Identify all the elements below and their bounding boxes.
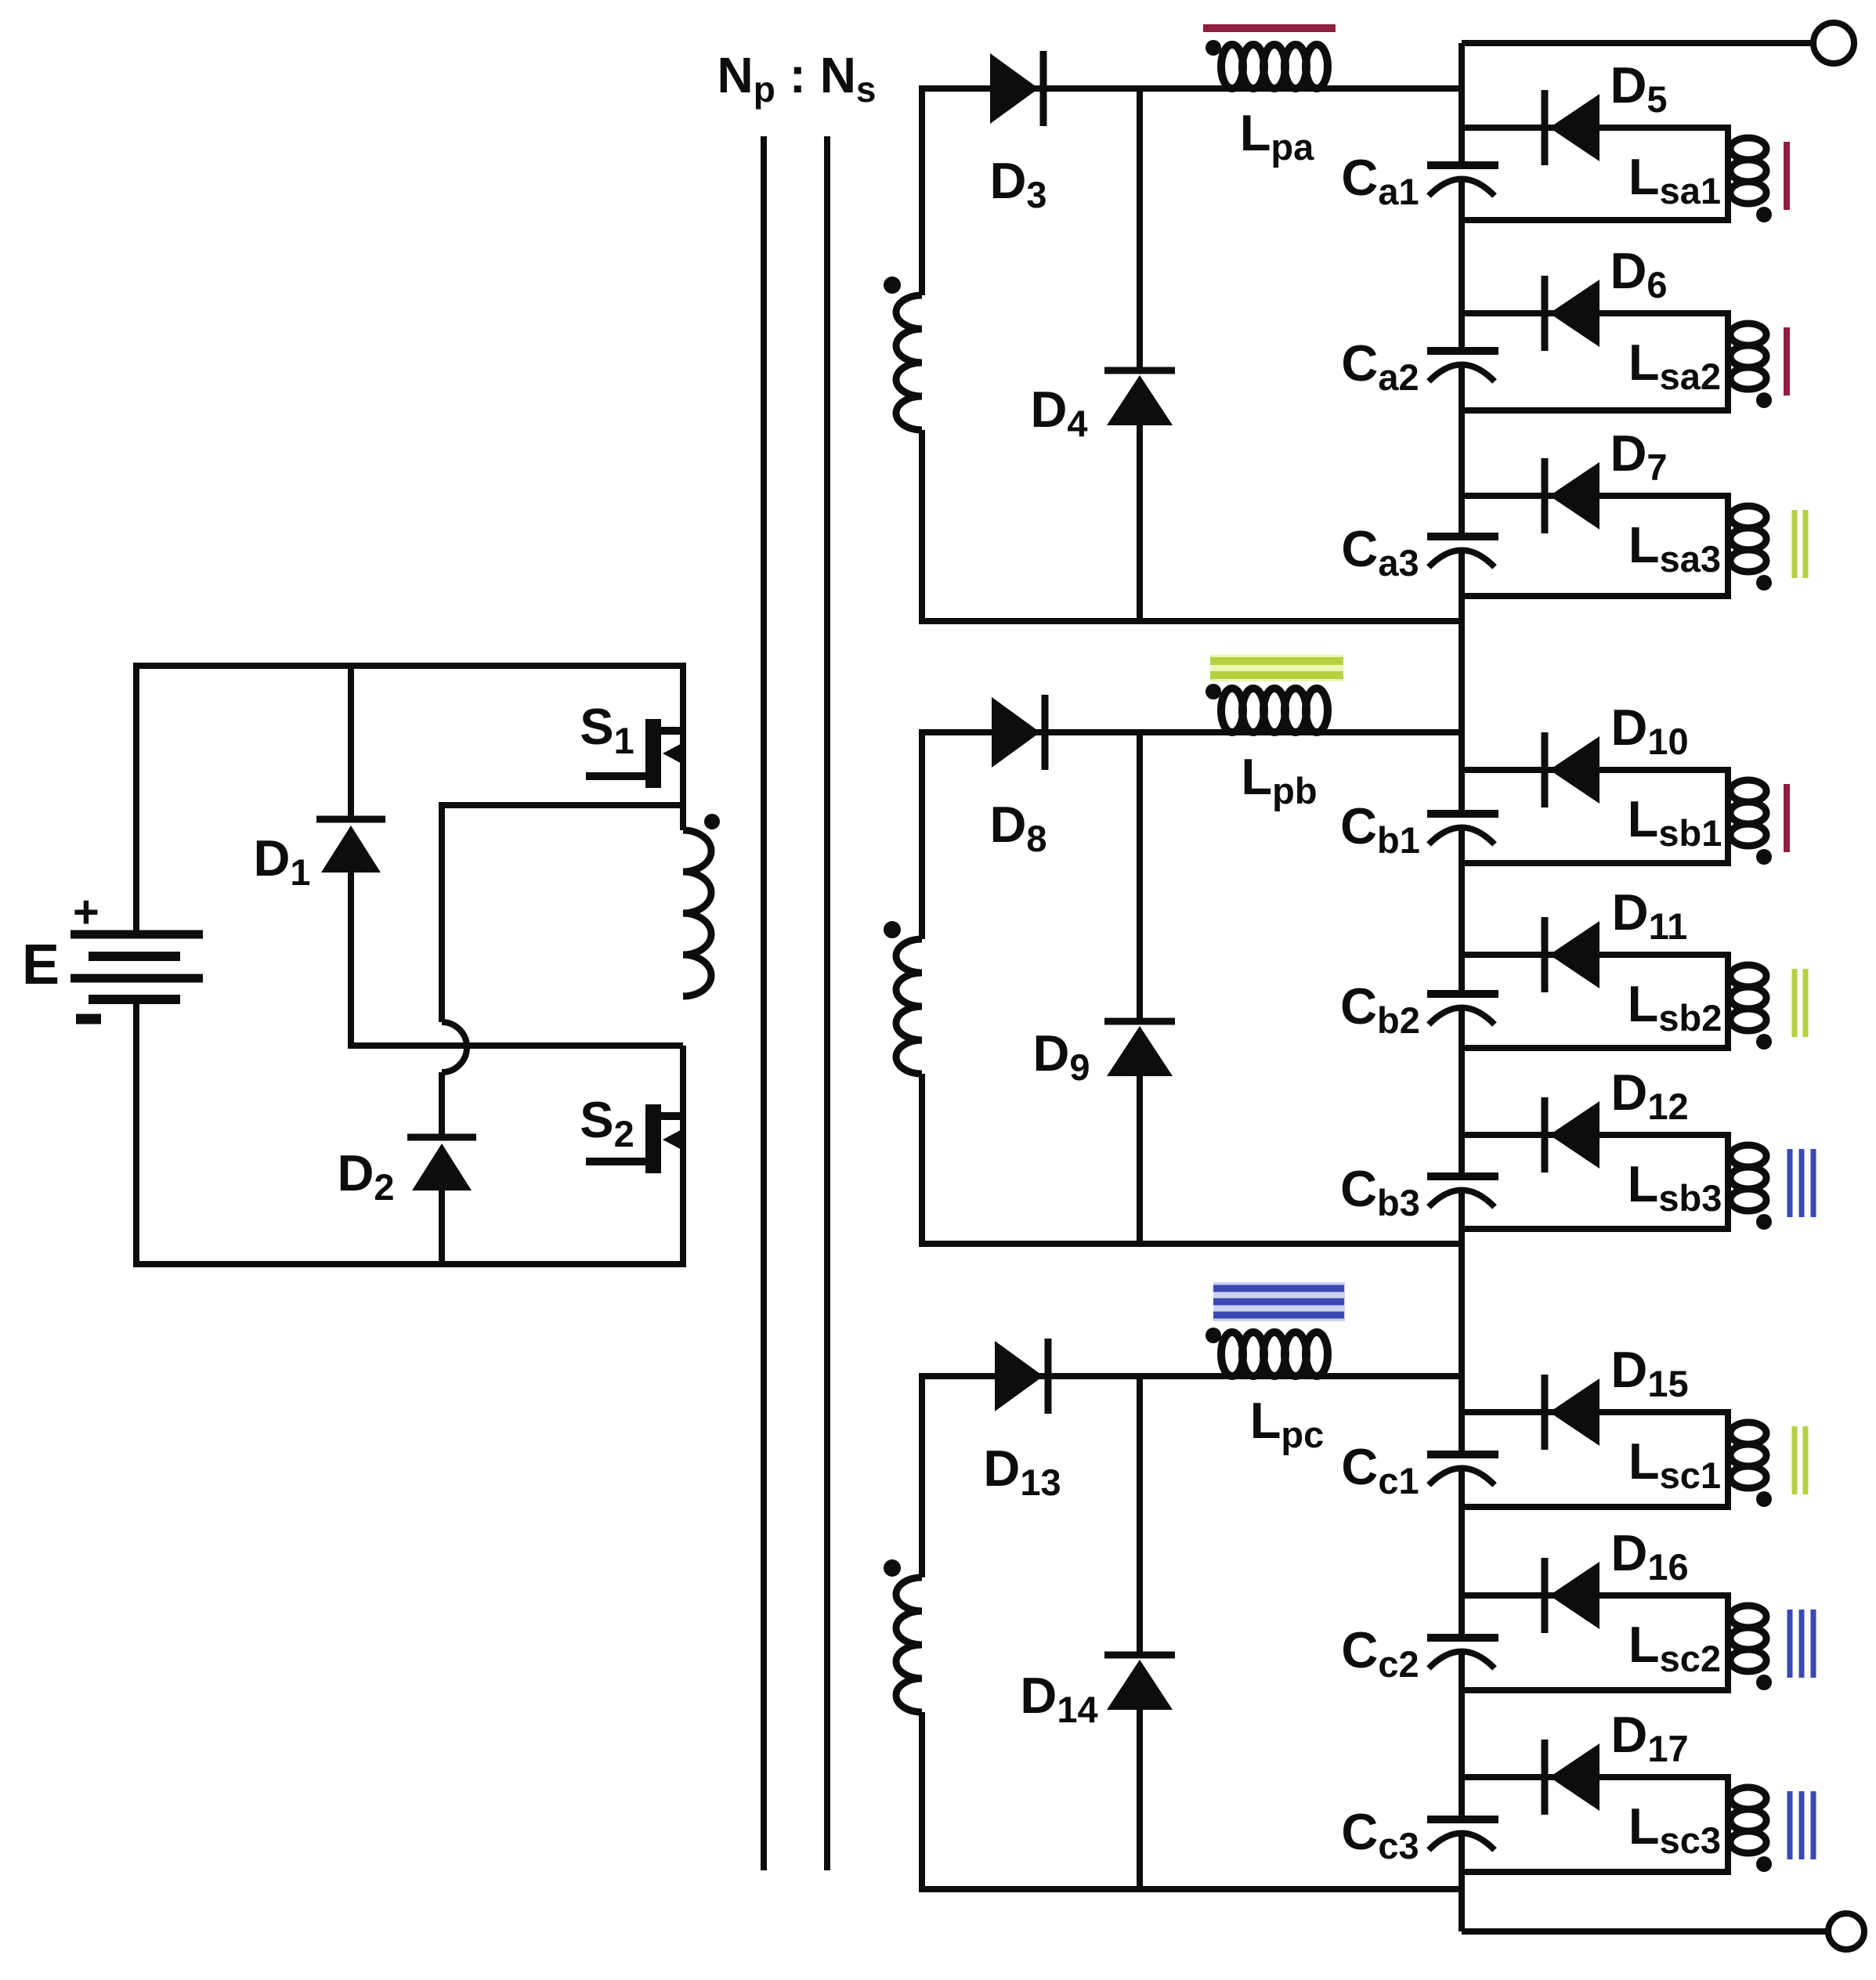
svg-text:Lsc2: Lsc2 <box>1628 1616 1721 1679</box>
inductor Lsb1 polarity dot <box>1756 849 1772 865</box>
wire battery negative lead <box>133 999 139 1267</box>
diode D1 <box>316 819 385 873</box>
inductor Lsc1 <box>1730 1422 1766 1488</box>
capacitor Ca2 <box>1427 351 1498 381</box>
svg-text:Ca2: Ca2 <box>1341 334 1419 398</box>
wire cell box bottom (Lsb3) <box>1462 1226 1728 1232</box>
phase marker ticks (Lsb3) <box>1790 1149 1813 1217</box>
diode D9 <box>1104 1021 1175 1076</box>
label D5 <box>1610 56 1667 120</box>
wire cell box bottom (Lsc1) <box>1462 1504 1728 1510</box>
label D15 <box>1610 1341 1688 1404</box>
svg-text:D14: D14 <box>1020 1667 1097 1730</box>
transformer core line left <box>761 136 767 1870</box>
svg-text:Cb3: Cb3 <box>1340 1160 1420 1223</box>
primary winding polarity dot <box>704 814 720 829</box>
wire diode D16 branch <box>1462 1592 1728 1599</box>
phase marker bars (Lpa) <box>1203 24 1336 32</box>
label Lpa <box>1240 104 1314 168</box>
svg-text:Lsb3: Lsb3 <box>1628 1155 1722 1219</box>
label Ca2 <box>1341 334 1419 398</box>
phase marker ticks (Lsa1) <box>1784 142 1790 210</box>
label D12 <box>1610 1064 1688 1127</box>
label D3 <box>989 152 1046 215</box>
svg-text:D16: D16 <box>1610 1524 1688 1588</box>
inductor Lsb3 polarity dot <box>1756 1214 1772 1230</box>
wire D9 branch lower <box>1137 1071 1143 1247</box>
label D4 <box>1030 381 1087 444</box>
label Cc1 <box>1341 1438 1419 1501</box>
label Lsa1 <box>1628 148 1721 211</box>
phase marker ticks (Lsa2) <box>1784 327 1790 396</box>
capacitor Cb1 <box>1427 814 1498 844</box>
wire cell box right edge (Lsc3) <box>1725 1774 1731 1875</box>
wire diode D17 branch <box>1462 1774 1728 1780</box>
diode D17 <box>1545 1740 1599 1815</box>
wire crossing hop over center wire <box>442 1022 467 1072</box>
label S1 <box>580 698 634 761</box>
wire module Lpb bottom rail <box>922 1241 1462 1247</box>
svg-text:Lpc: Lpc <box>1250 1392 1325 1455</box>
wire cell box bottom (Lsc3) <box>1462 1869 1728 1875</box>
inductor Lsa3 polarity dot <box>1756 575 1772 591</box>
label D10 <box>1610 699 1688 762</box>
svg-text:Ca1: Ca1 <box>1341 149 1419 212</box>
label D16 <box>1610 1524 1688 1588</box>
label D8 <box>989 796 1046 859</box>
svg-text:D9: D9 <box>1032 1024 1090 1088</box>
svg-text:Lpa: Lpa <box>1240 104 1314 168</box>
wire cell box right edge (Lsc1) <box>1725 1409 1731 1510</box>
wire cell box right edge (Lsb2) <box>1725 952 1731 1051</box>
diode D10 <box>1545 732 1599 808</box>
wire cell box bottom (Lsc2) <box>1462 1687 1728 1693</box>
wire D2 branch upper <box>439 802 445 1022</box>
wire center horizontal (D1 to S2/winding node) <box>348 1042 683 1049</box>
wire output top <box>1462 40 1815 46</box>
capacitor Ca3 <box>1427 537 1498 567</box>
diode D14 <box>1104 1655 1175 1710</box>
label D11 <box>1612 883 1688 947</box>
label D1 <box>253 829 310 893</box>
inductor Lsa1 polarity dot <box>1756 207 1772 222</box>
wire module Lpb left vertical lower <box>919 1074 925 1247</box>
label Cb3 <box>1340 1160 1420 1223</box>
svg-text:D13: D13 <box>983 1440 1061 1503</box>
capacitor Cc1 <box>1427 1454 1498 1485</box>
diode D7 <box>1545 458 1599 533</box>
wire D2 branch lower <box>439 1187 445 1267</box>
wire cell box bottom (Lsa2) <box>1462 407 1728 414</box>
label Lpc <box>1250 1392 1325 1455</box>
label battery plus <box>73 887 99 938</box>
diode D5 <box>1545 90 1599 165</box>
svg-text:Lpb: Lpb <box>1241 748 1317 811</box>
label Ca3 <box>1341 520 1419 584</box>
wire diode D15 branch <box>1462 1409 1728 1415</box>
label D6 <box>1610 242 1667 305</box>
svg-text:Lsa1: Lsa1 <box>1628 148 1721 211</box>
wire output bus (right vertical) <box>1459 43 1465 1931</box>
switch S1 (MOSFET) <box>586 663 686 830</box>
wire D9 branch upper <box>1137 729 1143 1024</box>
wire cell box right edge (Lsa1) <box>1725 125 1731 223</box>
inductor Lsc2 <box>1730 1606 1766 1671</box>
wire primary top rail <box>133 663 683 669</box>
output terminal bottom <box>1828 1913 1864 1949</box>
wire cell box bottom (Lsa1) <box>1462 217 1728 223</box>
wire D2 branch middle <box>439 1072 445 1140</box>
inductor Lsc3 <box>1730 1787 1766 1853</box>
inductor Lsc2 polarity dot <box>1756 1675 1772 1690</box>
inductor Lsb3 <box>1730 1145 1766 1211</box>
label D17 <box>1610 1706 1688 1769</box>
wire cell box bottom (Lsa3) <box>1462 593 1728 599</box>
wire module Lpa left vertical upper <box>919 85 925 295</box>
label S2 <box>580 1091 634 1154</box>
label Lsc2 <box>1628 1616 1721 1679</box>
inductor Lsc3 polarity dot <box>1756 1856 1772 1872</box>
svg-text:D3: D3 <box>989 152 1046 215</box>
wire output bottom <box>1462 1928 1829 1935</box>
svg-text:Cb1: Cb1 <box>1340 797 1420 861</box>
diode D3 <box>990 51 1043 126</box>
svg-text:D11: D11 <box>1612 883 1688 947</box>
diode D2 <box>407 1137 476 1191</box>
svg-text:D12: D12 <box>1610 1064 1688 1127</box>
inductor Lsb2 polarity dot <box>1756 1034 1772 1050</box>
diode D11 <box>1545 917 1599 992</box>
wire module Lpc left vertical upper <box>919 1373 925 1577</box>
label E <box>22 934 60 996</box>
phase marker bars (Lpc) <box>1213 1282 1345 1321</box>
inductor Lsa3 <box>1730 506 1766 572</box>
label Cb1 <box>1340 797 1420 861</box>
phase marker ticks (Lsa3) <box>1795 510 1806 578</box>
svg-text:Ca3: Ca3 <box>1341 520 1419 584</box>
label Lsb2 <box>1628 975 1722 1039</box>
wire cell box right edge (Lsb3) <box>1725 1132 1731 1232</box>
inductor Lsa1 <box>1730 138 1766 204</box>
wire module Lpc top rail <box>922 1373 1462 1379</box>
inductor Lsc1 polarity dot <box>1756 1491 1772 1507</box>
svg-text:Lsb2: Lsb2 <box>1628 975 1722 1039</box>
capacitor Cb3 <box>1427 1176 1498 1207</box>
inductor Lpa <box>1221 45 1328 89</box>
label Cc3 <box>1341 1803 1419 1866</box>
svg-text:E: E <box>22 934 60 996</box>
secondary winding (Lpa module) <box>896 295 922 430</box>
svg-text:+: + <box>73 887 99 938</box>
svg-text:D5: D5 <box>1610 56 1667 120</box>
label Cb2 <box>1340 977 1420 1041</box>
svg-text:S2: S2 <box>580 1091 634 1154</box>
svg-text:D4: D4 <box>1030 381 1087 444</box>
wire module Lpa left vertical lower <box>919 430 925 624</box>
diode D12 <box>1545 1097 1599 1172</box>
label Lsa3 <box>1628 516 1721 580</box>
wire D14 branch lower <box>1137 1705 1143 1892</box>
wire D1 branch upper <box>348 663 354 822</box>
wire primary bottom rail <box>133 1261 683 1267</box>
svg-text:S1: S1 <box>580 698 634 761</box>
svg-text:D6: D6 <box>1610 242 1667 305</box>
label D9 <box>1032 1024 1090 1088</box>
phase marker ticks (Lsc2) <box>1790 1610 1813 1678</box>
label Lsa2 <box>1628 334 1721 397</box>
capacitor Cb2 <box>1427 994 1498 1024</box>
wire module Lpb left vertical upper <box>919 729 925 939</box>
diode D15 <box>1545 1375 1599 1450</box>
svg-text:D17: D17 <box>1610 1706 1688 1769</box>
svg-text:Lsa3: Lsa3 <box>1628 516 1721 580</box>
inductor Lpc polarity dot <box>1205 1328 1221 1343</box>
svg-text:Np : Ns: Np : Ns <box>717 47 876 110</box>
wire diode D10 branch <box>1462 767 1728 773</box>
secondary winding (Lpc module) <box>896 1577 922 1712</box>
label battery minus <box>76 1014 101 1024</box>
wire module Lpc bottom rail <box>922 1886 1462 1892</box>
secondary winding (Lpb module) <box>896 939 922 1074</box>
wire cell box right edge (Lsa3) <box>1725 493 1731 599</box>
phase marker ticks (Lsb1) <box>1784 784 1790 852</box>
label Lsb1 <box>1628 790 1722 854</box>
diode D8 <box>992 695 1045 770</box>
capacitor Cc2 <box>1427 1638 1498 1668</box>
wire D4 branch lower <box>1137 421 1143 624</box>
secondary winding polarity dot (Lpc module) <box>884 1559 901 1577</box>
svg-text:Cb2: Cb2 <box>1340 977 1420 1041</box>
output terminal top <box>1813 23 1854 63</box>
inductor Lpc <box>1221 1332 1328 1376</box>
diode D4 <box>1104 370 1175 425</box>
wire cell box right edge (Lsb1) <box>1725 767 1731 866</box>
svg-text:D1: D1 <box>253 829 310 893</box>
svg-text:Lsa2: Lsa2 <box>1628 334 1721 397</box>
label D7 <box>1610 425 1667 488</box>
wire diode D6 branch <box>1462 310 1728 316</box>
label Ca1 <box>1341 149 1419 212</box>
phase marker bars (Lpb) <box>1210 655 1343 681</box>
wire cell box bottom (Lsb2) <box>1462 1045 1728 1051</box>
svg-text:Cc2: Cc2 <box>1341 1621 1419 1685</box>
wire module Lpa bottom rail <box>922 618 1462 624</box>
wire battery positive lead <box>133 663 139 937</box>
transformer core line right <box>824 136 830 1870</box>
label D13 <box>983 1440 1061 1503</box>
inductor Lpa polarity dot <box>1205 40 1221 56</box>
svg-text:Lsb1: Lsb1 <box>1628 790 1722 854</box>
label D2 <box>337 1144 394 1208</box>
label Lsb3 <box>1628 1155 1722 1219</box>
wire cell box right edge (Lsc2) <box>1725 1592 1731 1693</box>
inductor Lsb1 <box>1730 780 1766 846</box>
capacitor Cc3 <box>1427 1819 1498 1850</box>
diode D16 <box>1545 1558 1599 1633</box>
diode D6 <box>1545 276 1599 351</box>
label Lsc1 <box>1628 1433 1721 1496</box>
inductor Lsa2 <box>1730 323 1766 389</box>
wire D14 branch upper <box>1137 1373 1143 1658</box>
label Cc2 <box>1341 1621 1419 1685</box>
wire D1 branch lower <box>348 869 354 1049</box>
inductor Lpb <box>1221 688 1328 732</box>
wire cell box right edge (Lsa2) <box>1725 310 1731 414</box>
svg-text:Lsc1: Lsc1 <box>1628 1433 1721 1496</box>
secondary winding polarity dot (Lpb module) <box>884 921 901 938</box>
diode D13 <box>995 1339 1048 1414</box>
secondary winding polarity dot (Lpa module) <box>884 276 901 294</box>
wire S1-source to D2 branch <box>439 802 683 808</box>
svg-text:D8: D8 <box>989 796 1046 859</box>
wire module Lpa top rail <box>922 85 1462 92</box>
inductor Lsa2 polarity dot <box>1756 392 1772 408</box>
svg-text:D7: D7 <box>1610 425 1667 488</box>
inductor Lpb polarity dot <box>1205 684 1221 699</box>
phase marker ticks (Lsb2) <box>1795 969 1806 1037</box>
capacitor Ca1 <box>1427 165 1498 196</box>
wire module Lpb top rail <box>922 729 1462 735</box>
wire cell box bottom (Lsb1) <box>1462 860 1728 866</box>
label D14 <box>1020 1667 1097 1730</box>
label Lsc3 <box>1628 1798 1721 1861</box>
svg-text:Lsc3: Lsc3 <box>1628 1798 1721 1861</box>
svg-text:D15: D15 <box>1610 1341 1688 1404</box>
label Np : Ns <box>717 47 876 110</box>
wire diode D11 branch <box>1462 952 1728 958</box>
wire diode D12 branch <box>1462 1132 1728 1138</box>
wire diode D5 branch <box>1462 125 1728 131</box>
wire module Lpc left vertical lower <box>919 1712 925 1892</box>
inductor Lsb2 <box>1730 965 1766 1031</box>
wire D4 branch upper <box>1137 85 1143 374</box>
svg-text:Cc3: Cc3 <box>1341 1803 1419 1866</box>
primary winding Np <box>683 830 711 996</box>
phase marker ticks (Lsc3) <box>1790 1791 1813 1859</box>
svg-text:D2: D2 <box>337 1144 394 1208</box>
svg-text:D10: D10 <box>1610 699 1688 762</box>
label Lpb <box>1241 748 1317 811</box>
phase marker ticks (Lsc1) <box>1795 1426 1806 1494</box>
battery E (source) <box>70 934 203 999</box>
switch S2 (MOSFET) <box>586 1046 686 1267</box>
svg-text:Cc1: Cc1 <box>1341 1438 1419 1501</box>
wire diode D7 branch <box>1462 493 1728 499</box>
